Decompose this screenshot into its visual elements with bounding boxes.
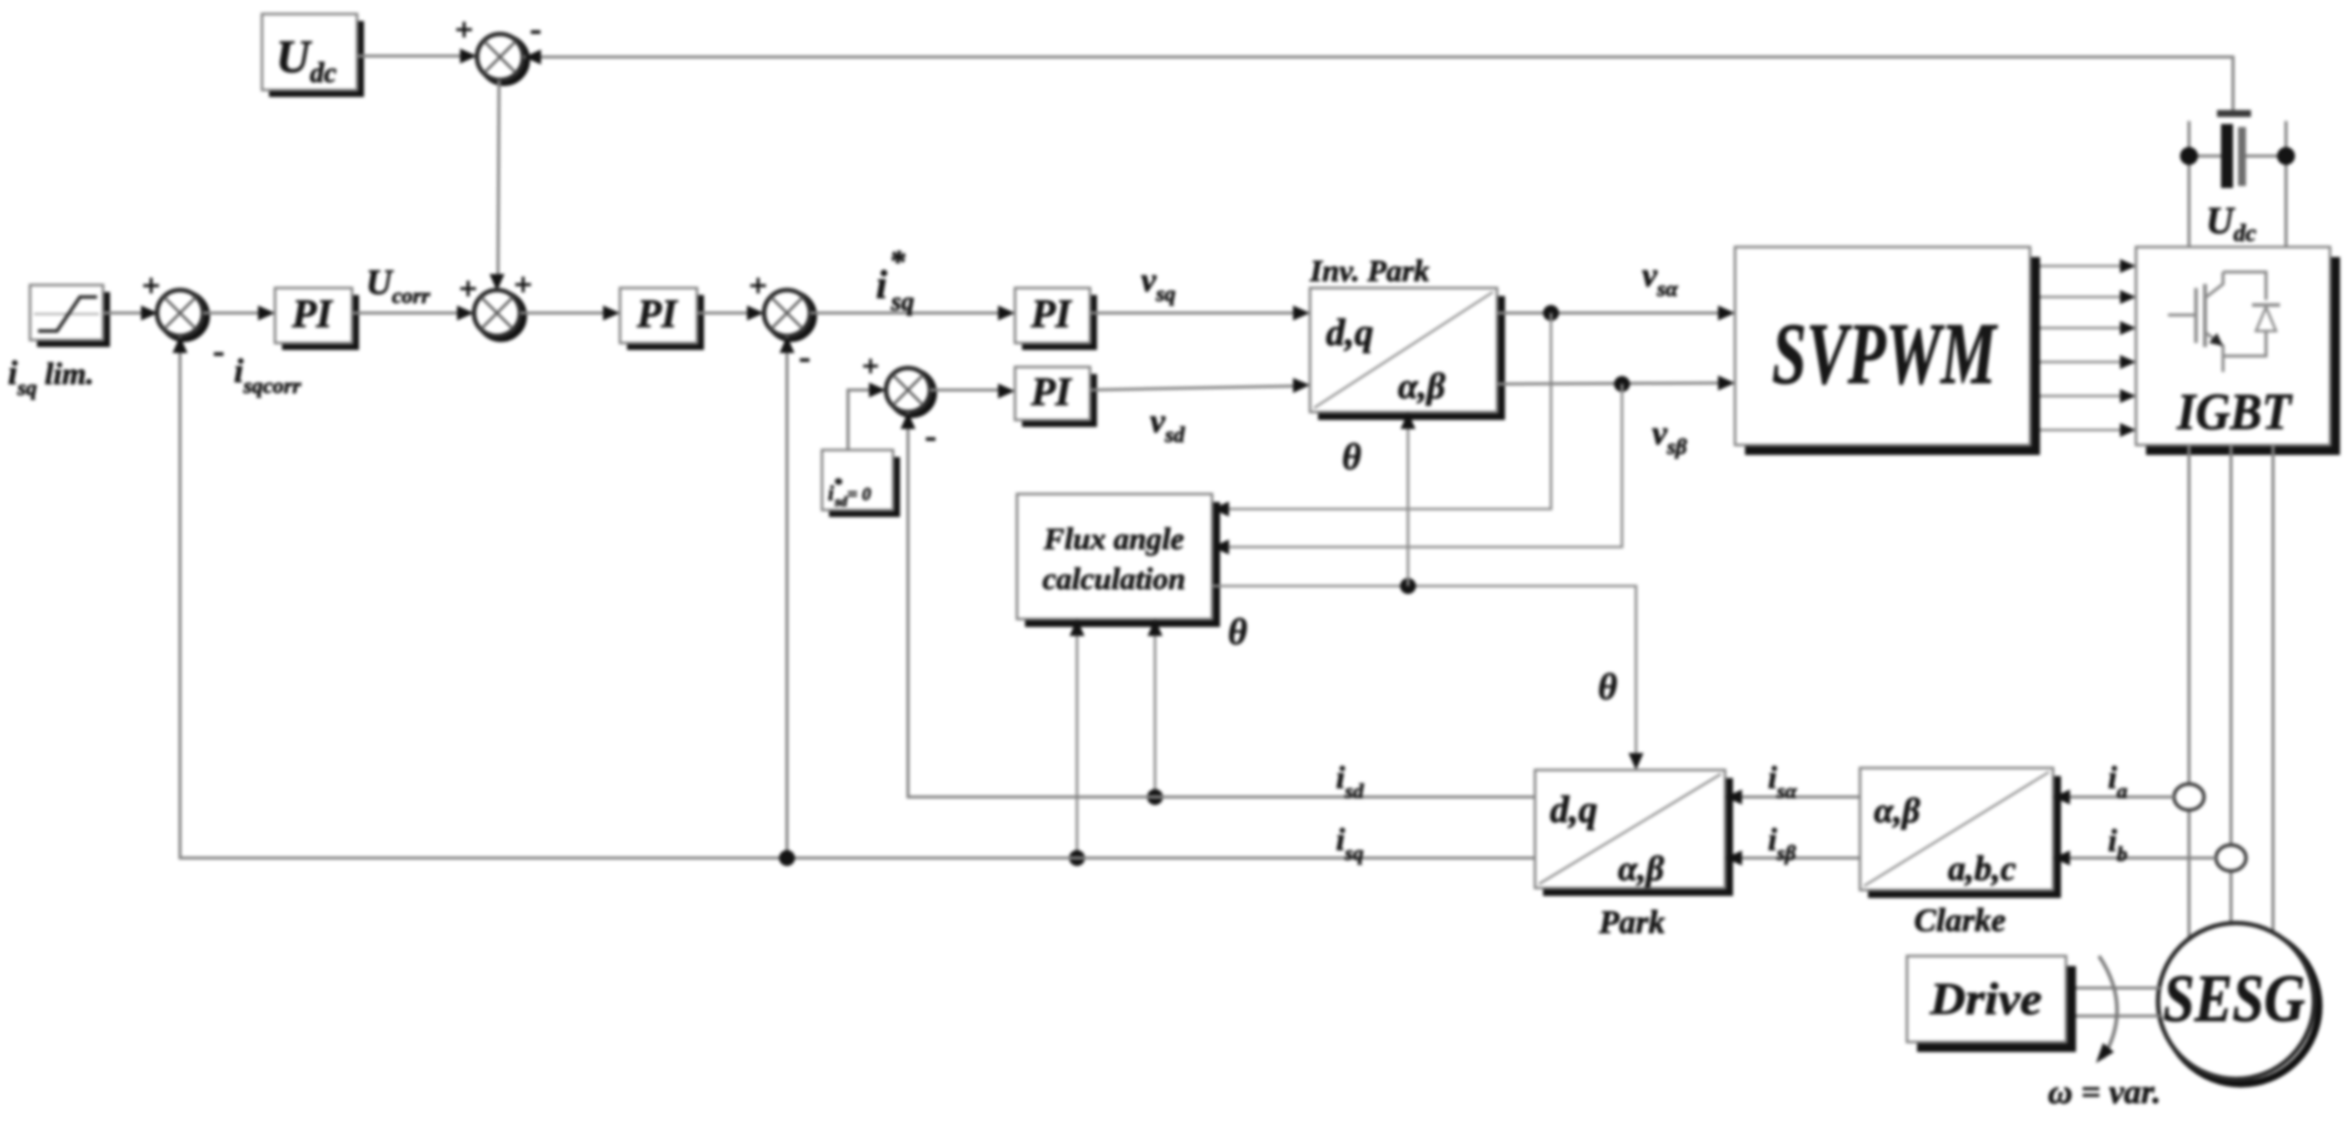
transistor symbol inside IGBT block	[2168, 272, 2280, 372]
svg-text:+: +	[749, 267, 767, 303]
wire S2 to PI2	[520, 306, 620, 321]
svg-text:+: +	[142, 267, 160, 303]
wire S0 down to summer S2	[490, 80, 505, 291]
svg-text:PI: PI	[636, 291, 678, 336]
label isqcorr	[234, 353, 301, 398]
svg-text:d,q: d,q	[1550, 789, 1598, 831]
svg-text:PI: PI	[1030, 291, 1072, 336]
rotation arc omega	[2096, 956, 2117, 1063]
block Udc reference	[262, 14, 364, 97]
label Park	[1598, 905, 1666, 941]
block flux angle calculation	[1017, 494, 1220, 627]
svg-text:+: +	[455, 11, 473, 47]
summing junction S4	[886, 368, 936, 455]
wire isd feedback from S4 to Park	[901, 412, 1536, 797]
generator SESG	[2158, 923, 2319, 1084]
label isb	[1768, 821, 1796, 865]
block IGBT inverter	[2136, 247, 2340, 455]
svg-text:a,b,c: a,b,c	[1948, 849, 2017, 888]
block PI3	[1015, 288, 1097, 350]
svg-text:-: -	[799, 339, 810, 376]
label Inv. Park	[1309, 253, 1430, 288]
label theta at flux output	[1228, 612, 1247, 653]
label vsa	[1642, 257, 1679, 301]
svg-text:+: +	[514, 266, 532, 302]
wire PI3 to Inv Park with vsq label	[1090, 306, 1310, 321]
svg-text:-: -	[213, 333, 224, 370]
label ia	[2108, 759, 2127, 803]
wire limiter to summer S1	[103, 306, 158, 321]
svg-text:Drive: Drive	[1929, 973, 2042, 1024]
block PI2	[620, 288, 704, 350]
wire isb Clarke to Park	[1725, 851, 1860, 866]
wire theta output of flux angle calc	[1212, 578, 1644, 770]
svg-text:-: -	[925, 418, 936, 455]
wire three-phase line c	[2272, 445, 2275, 931]
current sensor ib	[2216, 845, 2246, 871]
svg-text:d,q: d,q	[1326, 312, 1374, 354]
wire ia sensor to Clarke	[2053, 790, 2174, 805]
summing junction S0	[455, 11, 541, 83]
label isd	[1336, 759, 1364, 803]
label vsb	[1652, 415, 1688, 459]
wire Inv Park vsb output to SVPWM	[1497, 376, 1735, 393]
wire PI1 to summer S2 with Ucorr label	[352, 306, 474, 321]
label isq* setpoint	[876, 243, 914, 316]
label theta at Inv Park input	[1342, 437, 1361, 478]
label isa	[1768, 759, 1797, 803]
svg-text:+: +	[459, 270, 477, 306]
svg-text:Clarke: Clarke	[1914, 903, 2006, 939]
wire Udc to summer S0	[357, 49, 477, 64]
svg-text:Park: Park	[1598, 905, 1666, 941]
wire flux input tap from isq line	[1069, 619, 1085, 866]
block Drive	[1907, 956, 2076, 1052]
label Clarke	[1914, 903, 2006, 939]
label ib	[2108, 822, 2127, 866]
svg-text:ω = var.: ω = var.	[2048, 1074, 2161, 1111]
wire isd* reference to summer S4	[848, 350, 886, 450]
block Inv Park dq to alpha-beta	[1310, 288, 1505, 420]
capacitor Cdc	[2180, 110, 2295, 247]
svg-text:α,β: α,β	[1398, 366, 1446, 406]
wire S3 feedback down to isq line	[779, 336, 795, 866]
label vsd	[1150, 403, 1186, 447]
wire S3 to PI3 with isq* label	[810, 306, 1015, 321]
svg-text:SVPWM: SVPWM	[1772, 306, 1998, 403]
svg-text:α,β: α,β	[1618, 849, 1664, 888]
shaft Drive to SESG	[2076, 988, 2160, 1016]
svg-text:Inv. Park: Inv. Park	[1309, 253, 1430, 288]
block PI4	[1015, 367, 1097, 427]
label Ucorr	[366, 262, 430, 308]
wire PI4 to Inv Park with vsd label	[1090, 378, 1310, 393]
summing junction S3	[749, 267, 814, 376]
block Clarke transform	[1860, 768, 2061, 898]
svg-text:-: -	[530, 11, 541, 48]
wire three-phase line a	[2188, 445, 2191, 937]
summing junction S1	[142, 267, 224, 370]
svg-text:Flux angle: Flux angle	[1043, 521, 1185, 556]
wire Inv Park vsa output to SVPWM	[1497, 305, 1735, 321]
svg-text:α,β: α,β	[1874, 791, 1920, 830]
svg-text:calculation: calculation	[1043, 561, 1186, 596]
svg-text:IGBT: IGBT	[2176, 384, 2293, 441]
label Udc at capacitor	[2206, 200, 2256, 247]
wire S0 output to DC-link capacitor (top feedback)	[523, 50, 2233, 113]
wire isa Clarke to Park	[1725, 790, 1860, 805]
wire PI2 to summer S3	[697, 306, 764, 321]
block PI1	[275, 288, 359, 350]
block SVPWM	[1735, 247, 2040, 455]
limiter block isq lim	[30, 285, 110, 347]
current sensor ia	[2174, 784, 2204, 810]
svg-text:θ: θ	[1598, 667, 1617, 708]
wire S1 to PI1	[203, 306, 275, 321]
wire three-phase line b	[2230, 445, 2233, 923]
label isq lim	[8, 355, 94, 400]
wire S4 to PI4	[930, 384, 1015, 399]
wire flux input taps from isd line	[1147, 619, 1163, 805]
label isq	[1336, 821, 1364, 865]
svg-text:SESG: SESG	[2163, 960, 2305, 1036]
block Park transform	[1535, 770, 1733, 896]
wire vsb tap down to flux angle calculation	[1212, 384, 1622, 555]
label theta at Park input	[1598, 667, 1617, 708]
label omega = var.	[2048, 1074, 2161, 1111]
svg-text:PI: PI	[291, 291, 333, 336]
svg-text:+: +	[862, 350, 879, 383]
svg-text:θ: θ	[1228, 612, 1247, 653]
summing junction S2	[459, 266, 532, 339]
wire isq feedback long line	[173, 336, 1536, 858]
svg-text:θ: θ	[1342, 437, 1361, 478]
label vsq	[1141, 262, 1176, 306]
wire ib sensor to Clarke	[2053, 851, 2216, 866]
wire SVPWM to IGBT gate signals (6 lines)	[2040, 259, 2136, 437]
wire theta up to Inv Park	[1401, 412, 1416, 586]
block isd*=0 reference	[822, 450, 900, 517]
wire vsa tap down to flux angle calculation	[1212, 313, 1551, 517]
svg-text:PI: PI	[1030, 369, 1072, 414]
